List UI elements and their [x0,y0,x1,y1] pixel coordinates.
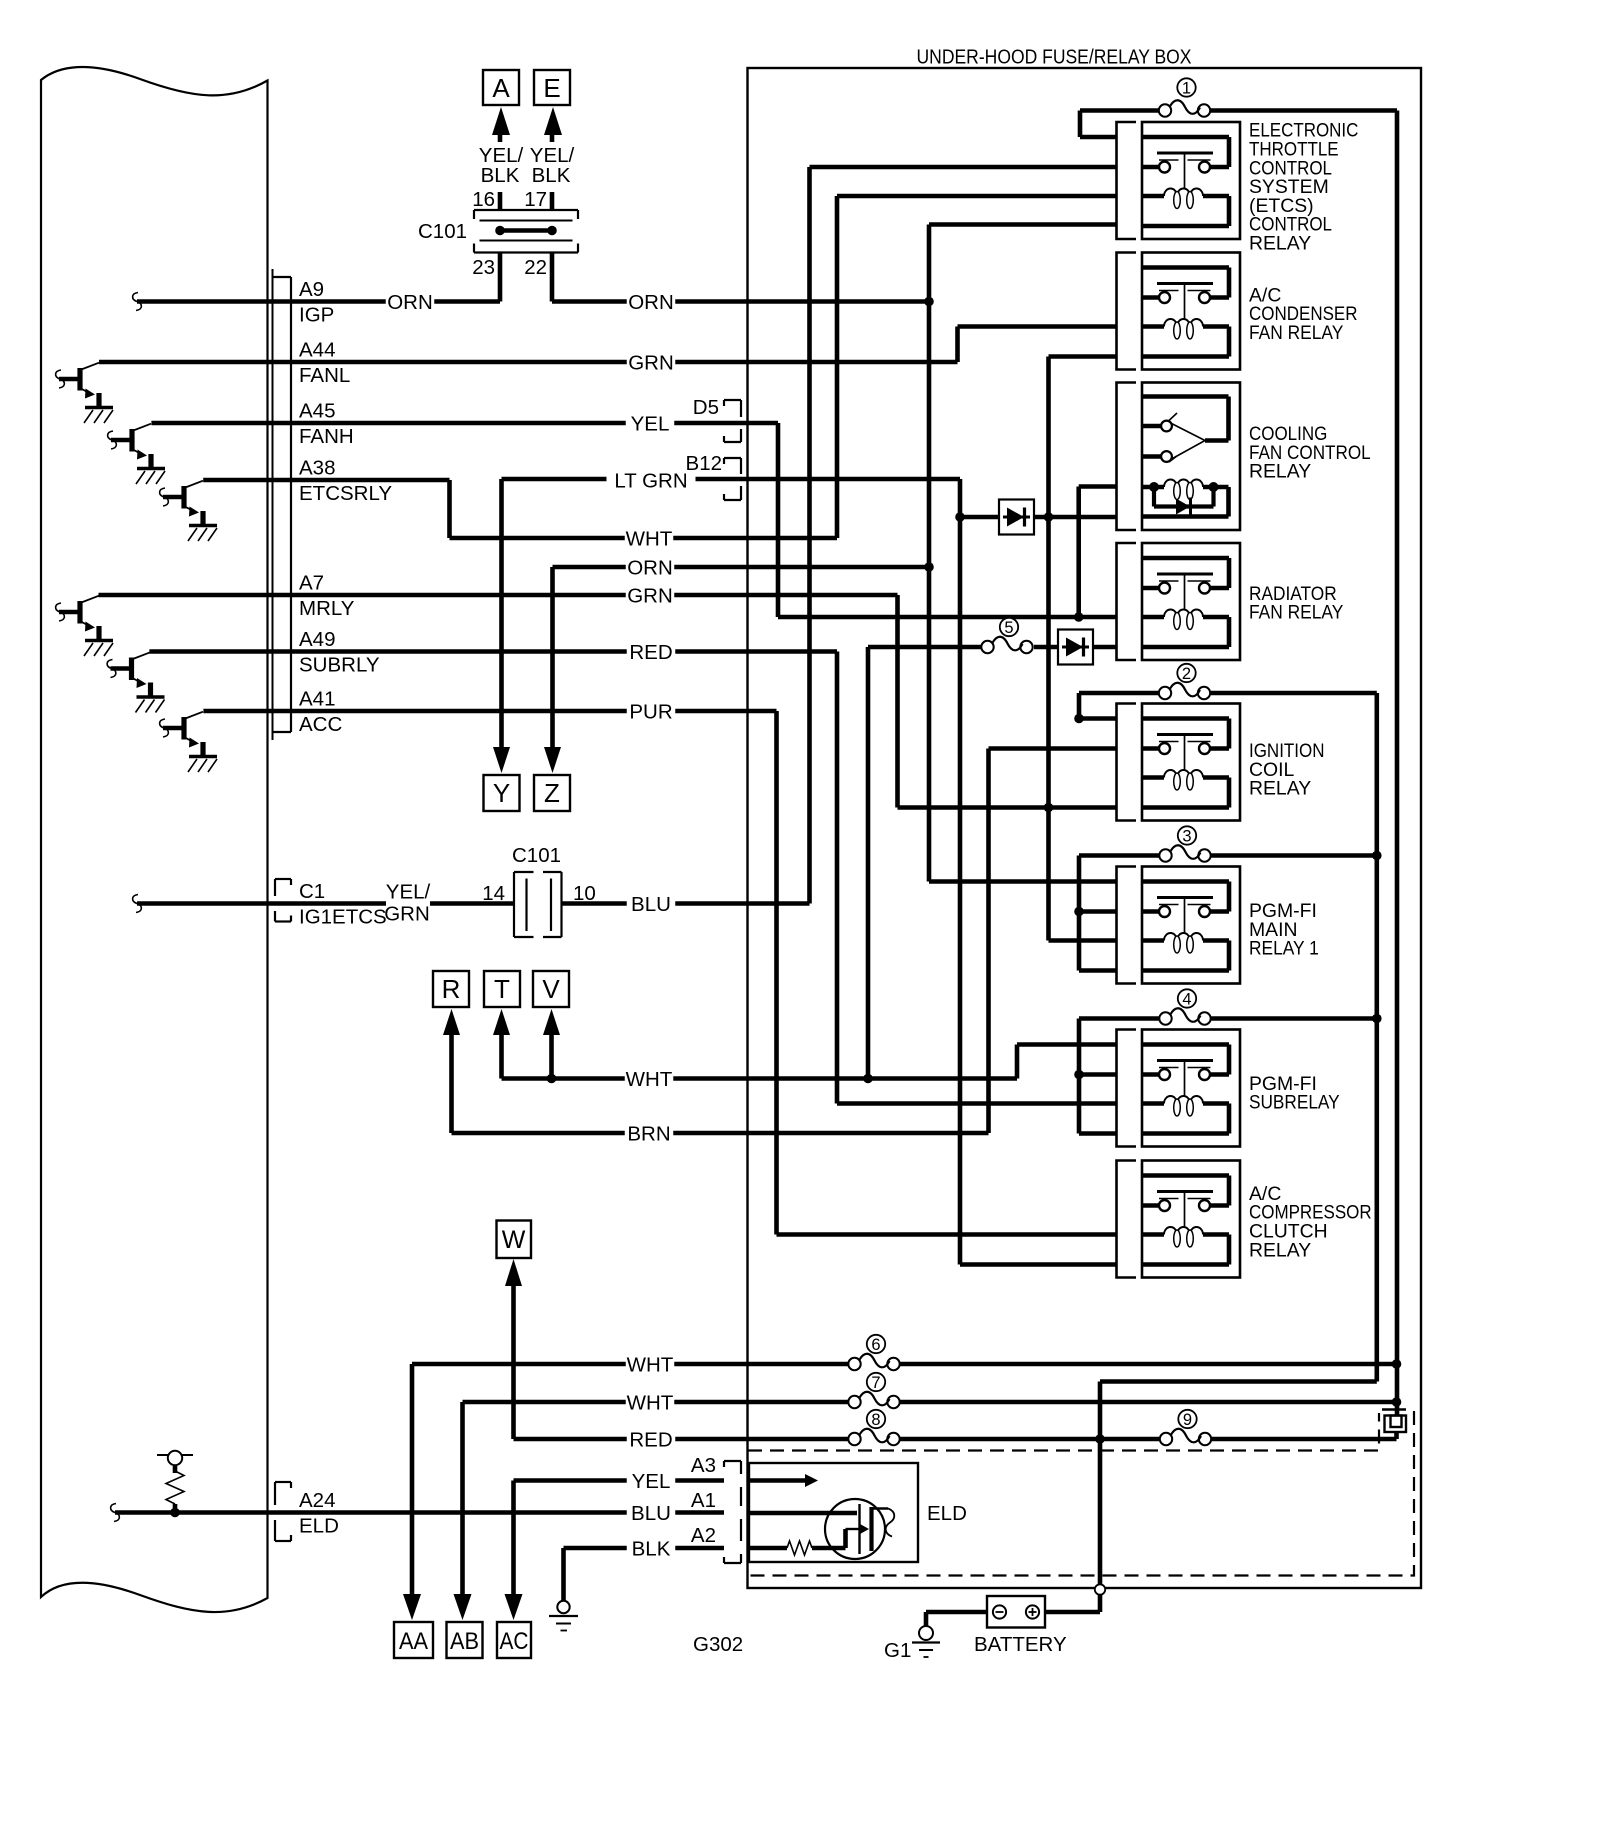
ground G302 [549,1601,578,1631]
svg-text:YEL/: YEL/ [386,881,431,904]
svg-text:E: E [543,73,560,103]
svg-text:BLK: BLK [481,164,520,187]
svg-text:RELAY 1: RELAY 1 [1249,938,1319,960]
svg-text:A41: A41 [299,688,335,711]
svg-text:6: 6 [871,1336,880,1354]
wire ORN from A9/IGP to C101 pin 23 [137,299,500,304]
wire BLU from C101 pin 10 to ETCS relay contact [562,901,810,906]
resistor (ELD pull-up) inside ECM [157,1451,193,1513]
svg-text:5: 5 [1004,619,1013,637]
wire WHT (fuse 6 row) to AA box terminal [412,1362,848,1367]
connector box R [433,971,469,1007]
arrow into AB [454,1594,472,1620]
wire BRN row to R box terminal / ignition relay contact [452,1131,989,1136]
ELD unit [749,1463,918,1562]
svg-text:C1: C1 [299,880,325,903]
vertical ORN net to ETCS relay bottom and PGM-FI main relay top [927,225,932,882]
svg-text:A49: A49 [299,628,335,651]
connector C101 (pins 16/17/23/22) [474,210,578,253]
svg-text:WHT: WHT [627,1392,674,1415]
relay connector bracket (A/C condenser fan relay) [1117,253,1137,370]
connector box V [533,971,569,1007]
arrow into AC [505,1594,523,1620]
svg-text:BRN: BRN [627,1123,670,1146]
arrow into A [492,107,510,135]
svg-text:A1: A1 [691,1489,716,1512]
svg-text:SUBRELAY: SUBRELAY [1249,1092,1340,1114]
svg-text:ORN: ORN [627,557,673,580]
fuse 2 [1159,664,1210,699]
wire GRN from A7/MRLY to ignition coil relay return [99,593,898,598]
svg-text:V: V [542,974,560,1004]
wire YEL from A45/FANH to radiator fan relay coil [151,421,778,426]
svg-text:14: 14 [482,882,505,905]
stacked wire label YEL/BLK at E [531,142,573,192]
pin bracket C1 [275,879,291,922]
svg-text:RED: RED [629,641,672,664]
wire YEL/GRN from C1/IG1ETCS to C101 pin 14 [137,901,514,906]
svg-text:AC: AC [500,1628,529,1655]
connector box W [497,1221,532,1259]
svg-text:10: 10 [573,882,596,905]
connector box A [483,70,519,105]
fuse 2 row feeding ignition coil relay [1079,691,1159,696]
svg-text:A7: A7 [299,572,324,595]
svg-text:FAN RELAY: FAN RELAY [1249,322,1343,344]
wire LT GRN / WHT from A38/ETCSRLY to ETCS relay coil [203,478,449,483]
svg-text:BLK: BLK [632,1538,671,1561]
svg-text:UNDER-HOOD FUSE/RELAY BOX: UNDER-HOOD FUSE/RELAY BOX [917,46,1192,69]
svg-text:YEL: YEL [632,1470,671,1493]
arrow into Y [493,747,510,773]
vertical net A/C condenser relay - ignition coil relay - PGM-FI main relay coil [1046,357,1051,941]
fuse 1 feed to ETCS relay [1080,108,1159,113]
stacked wire label YEL/GRN at C101 [386,880,430,926]
arrow into V [543,1009,560,1035]
battery stud circle on box bottom [1095,1584,1105,1594]
svg-text:Y: Y [493,778,510,808]
ground of Q4 (MRLY driver) [84,641,113,657]
svg-text:RELAY: RELAY [1249,778,1311,800]
svg-text:D5: D5 [693,396,719,419]
diode D2 (radiator fan relay feed) [1058,630,1093,665]
relay connector bracket (A/C compressor clutch relay) [1117,1161,1137,1278]
vertical branch to cooling fan control relay coil [1076,487,1081,618]
svg-text:R: R [442,974,461,1004]
arrow into AA [403,1594,421,1620]
C101 internal bridge wire [500,228,552,233]
transistor Q4 (MRLY driver) [56,596,99,641]
connector box AC [497,1622,531,1658]
fuse 8 [848,1410,899,1445]
wire GRN from A44/FANL to A/C condenser fan relay coil [99,360,958,365]
svg-text:A9: A9 [299,278,324,301]
svg-text:T: T [494,974,510,1004]
svg-text:MRLY: MRLY [299,597,355,620]
transistor Q5 (SUBRLY driver) [107,652,150,697]
stacked wire label YEL/BLK at A [480,142,522,192]
svg-text:C101: C101 [512,844,561,867]
relay connector bracket (PGM-FI main relay 1) [1117,867,1137,984]
pin bracket D5 [724,400,741,442]
svg-text:RELAY: RELAY [1249,461,1311,483]
svg-text:2: 2 [1182,665,1191,683]
ground of Q5 (SUBRLY driver) [136,697,165,713]
svg-text:7: 7 [871,1374,880,1392]
connector box AB [447,1622,483,1658]
connector box E [534,70,570,105]
ECM body outline (torn-edge band) [41,67,268,1612]
svg-text:G1: G1 [884,1639,911,1662]
wire BLU from A24/ELD to ELD pin A1 [115,1510,724,1515]
svg-text:LT GRN: LT GRN [614,470,687,493]
wire YEL from ELD pin A3 to AC box drop [514,1478,725,1483]
svg-text:16: 16 [472,188,495,211]
relay connector bracket (ETCS control relay) [1117,122,1137,239]
relay PGM-FI subrelay [1142,1030,1240,1147]
svg-text:A38: A38 [299,457,335,480]
relay PGM-FI main relay 1 [1142,867,1240,984]
relay ignition coil relay [1142,704,1240,821]
relay A/C condenser fan relay [1142,253,1240,370]
svg-text:9: 9 [1183,1411,1192,1429]
ELD connector bracket (A3/A1/A2) [724,1461,741,1563]
wire LT GRN from Y-terminal branch to B12 and diode [502,477,961,482]
relay connector bracket (radiator fan relay) [1117,543,1137,660]
connector C101 (pins 14/10) [514,872,562,937]
svg-text:ETCSRLY: ETCSRLY [299,482,392,505]
fuse 3 row feeding PGM-FI main relay 1 [1079,853,1160,858]
relay radiator fan relay [1142,543,1240,660]
transistor Q3 (ETCSRLY driver) [160,481,203,526]
ground of Q1 (FANL driver) [84,408,113,424]
svg-text:WHT: WHT [627,1354,674,1377]
svg-text:3: 3 [1182,828,1191,846]
fuse 9 [1160,1410,1211,1445]
wire YEL/BLK from C101 pin 16 to connector A [498,135,503,210]
wire color labels [386,294,435,314]
relay connector bracket (cooling fan control relay) [1117,383,1137,531]
svg-text:WHT: WHT [626,1068,673,1091]
svg-text:FANH: FANH [299,425,354,448]
fuse 5 [981,618,1032,653]
wire YEL/BLK from C101 pin 17 to connector E [550,135,555,210]
transistor Q1 (FANL driver) [56,363,99,408]
svg-text:AB: AB [450,1628,479,1655]
wire ORN from C101 pin 22 into fuse box to junction [550,253,555,302]
relay connector bracket (PGM-FI subrelay) [1117,1030,1137,1147]
svg-text:W: W [502,1226,526,1254]
right-hand bus from fuse 1 down to +B terminal [1395,111,1400,1424]
svg-text:A3: A3 [691,1454,716,1477]
svg-text:RELAY: RELAY [1249,233,1311,255]
transistor Q6 (ACC driver) [160,712,203,757]
svg-text:ELD: ELD [299,1515,339,1538]
svg-text:BLU: BLU [631,1502,671,1525]
svg-text:AA: AA [399,1628,428,1655]
svg-text:GRN: GRN [384,903,430,926]
battery [987,1596,1045,1628]
svg-text:22: 22 [524,256,547,279]
fuse 1 [1159,78,1210,116]
arrow into T [493,1009,510,1035]
ECM connector strip [273,269,292,740]
wire WHT (fuse 7 row) to AB box terminal [463,1400,849,1405]
fuse 4 row feeding PGM-FI subrelay [1079,1016,1160,1021]
svg-text:BLU: BLU [631,893,671,916]
ground of Q3 (ETCSRLY driver) [188,526,217,542]
+B battery terminal of fuse box [1382,1410,1406,1433]
ground of Q2 (FANH driver) [136,469,165,485]
relay cooling fan control (latching type) [1142,383,1240,531]
net at cooling fan relay coil return (diode D1 row) [958,479,963,1265]
arrow into E [544,107,562,135]
fuse 4 [1159,989,1210,1024]
pin bracket B12 [724,458,741,500]
battery negative wire to G1 [926,1610,993,1615]
battery positive wire to fuse box +B stud [1038,1610,1100,1615]
svg-text:1: 1 [1182,80,1191,98]
wire PUR from A41/ACC to A/C compressor clutch relay coil [203,709,776,714]
svg-text:A24: A24 [299,1489,335,1512]
relay A/C compressor clutch relay [1142,1161,1240,1278]
wire ORN (2nd row) to Z box terminal [553,565,930,570]
bus from fuse 2 down to fuses 3,4 and lower row [1375,693,1380,1382]
svg-text:ACC: ACC [299,713,342,736]
svg-text:ORN: ORN [387,291,433,314]
fuse 7 [848,1373,899,1408]
svg-text:4: 4 [1182,991,1191,1009]
svg-text:C101: C101 [418,220,467,243]
ground of Q6 (ACC driver) [188,757,217,773]
arrow into R [443,1009,460,1035]
connector box T [484,971,520,1007]
svg-text:IGP: IGP [299,304,334,327]
wire RED (fuse 8 / fuse 9 row) from W box to +B terminal [514,1437,849,1442]
wire WHT row to T and V box terminals [502,1076,1018,1081]
svg-text:RED: RED [629,1429,672,1452]
wire RED from A49/SUBRLY to PGM-FI subrelay coil [149,649,837,654]
svg-text:GRN: GRN [628,352,674,375]
svg-text:SUBRLY: SUBRLY [299,654,380,677]
wire BLK from ELD pin A2 to G302 [564,1546,725,1551]
svg-text:17: 17 [524,188,547,211]
svg-text:YEL: YEL [631,413,670,436]
svg-text:IG1ETCS: IG1ETCS [299,906,387,929]
svg-text:ELD: ELD [927,1502,967,1525]
svg-text:BATTERY: BATTERY [974,1633,1067,1656]
svg-text:RELAY: RELAY [1249,1239,1311,1261]
svg-text:FAN RELAY: FAN RELAY [1249,602,1343,624]
arrow into Z [544,747,561,773]
under-hood fuse/relay box outline [748,68,1422,1588]
svg-text:PUR: PUR [629,701,672,724]
fuse 5 feed row to radiator fan relay return [868,645,981,650]
diode D1 (cooling fan relay feed) [999,500,1034,535]
svg-text:8: 8 [871,1411,880,1429]
fuse 6 [848,1335,899,1370]
transistor Q2 (FANH driver) [108,424,151,469]
junction dots [924,297,934,307]
connector box AA [394,1622,433,1658]
svg-text:B12: B12 [686,452,722,475]
svg-text:FANL: FANL [299,364,350,387]
svg-text:A44: A44 [299,339,335,362]
svg-text:BLK: BLK [532,164,571,187]
svg-text:Z: Z [544,778,560,808]
svg-text:GRN: GRN [627,585,673,608]
connector box Y [484,775,520,811]
svg-text:WHT: WHT [626,528,673,551]
connector box Z [534,775,570,811]
relay connector bracket (ignition coil relay) [1117,704,1137,821]
svg-text:A45: A45 [299,400,335,423]
dashed ELD compartment boundary [748,1413,1379,1451]
ground G1 [912,1626,940,1657]
pin bracket A24 [275,1482,291,1541]
wire to Y box terminal [499,479,504,749]
svg-text:A: A [492,73,510,103]
relay ETCS control relay [1142,122,1240,239]
svg-text:A2: A2 [691,1524,716,1547]
arrow into W [505,1259,522,1286]
svg-text:ORN: ORN [628,291,674,314]
fuse 3 [1159,826,1210,861]
svg-text:G302: G302 [693,1633,743,1656]
svg-text:23: 23 [472,256,495,279]
